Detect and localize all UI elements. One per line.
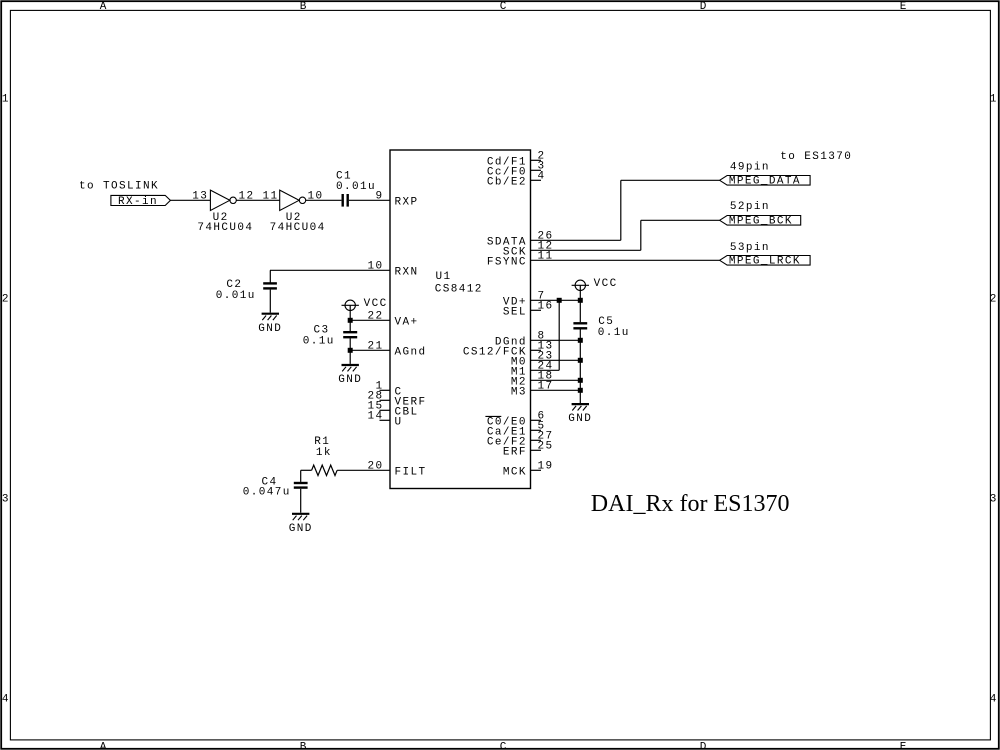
junction DGnd <box>578 338 583 343</box>
svg-text:3: 3 <box>990 493 998 505</box>
svg-text:GND: GND <box>258 323 282 335</box>
capacitor C5 <box>573 322 587 324</box>
junction M2 <box>578 378 583 383</box>
svg-text:74HCU04: 74HCU04 <box>270 222 326 234</box>
svg-text:D: D <box>700 741 708 750</box>
svg-text:VCC: VCC <box>364 298 388 310</box>
junction M3 <box>578 388 583 393</box>
wire FILT pin 20 <box>337 469 390 471</box>
svg-text:U: U <box>395 417 403 429</box>
junction M1 riser <box>557 298 562 303</box>
svg-text:RXP: RXP <box>395 197 419 209</box>
svg-text:A: A <box>100 1 108 13</box>
svg-text:U1: U1 <box>436 271 452 283</box>
svg-text:C: C <box>500 741 508 750</box>
svg-text:to ES1370: to ES1370 <box>780 151 852 163</box>
ground GND under C2 <box>262 313 279 315</box>
wire M1 pin 24 <box>531 369 560 371</box>
svg-text:ERF: ERF <box>503 447 527 459</box>
op-amp U1 CS8412 IC box <box>390 150 531 489</box>
svg-text:FSYNC: FSYNC <box>487 257 527 269</box>
wire AGnd pin 21 <box>350 349 390 351</box>
svg-text:11: 11 <box>263 191 279 203</box>
wire DGnd pin 8 <box>531 339 581 341</box>
svg-text:CS8412: CS8412 <box>435 284 483 296</box>
svg-text:RX-in: RX-in <box>118 196 158 208</box>
wire VD+ pin 7 <box>531 299 581 301</box>
svg-text:49pin: 49pin <box>730 161 770 173</box>
svg-text:E: E <box>900 741 908 750</box>
wire C4 to ground <box>300 489 302 513</box>
svg-text:2: 2 <box>2 293 10 305</box>
svg-text:0.01u: 0.01u <box>336 181 376 193</box>
svg-text:1: 1 <box>990 93 998 105</box>
svg-text:MPEG_DATA: MPEG_DATA <box>729 176 801 188</box>
wire C1 to RXP pin 9 <box>349 199 390 201</box>
wire riser to M1 <box>558 300 560 370</box>
ground GND under C3 <box>342 364 359 366</box>
wire R1 to C4 <box>301 469 312 471</box>
junction AGnd <box>348 348 353 353</box>
svg-text:GND: GND <box>568 413 592 425</box>
svg-text:RXN: RXN <box>395 267 419 279</box>
capacitor C2 <box>263 282 277 284</box>
svg-text:0.047u: 0.047u <box>243 487 291 499</box>
wire SCK pin 12 <box>531 249 641 251</box>
wire SDATA pin 26 <box>531 239 621 241</box>
U2a inverter gate <box>210 190 229 210</box>
svg-text:0.1u: 0.1u <box>303 336 335 348</box>
wire VCC down through C3 <box>349 305 351 331</box>
svg-text:3: 3 <box>2 493 10 505</box>
svg-text:MPEG_LRCK: MPEG_LRCK <box>729 256 801 268</box>
svg-text:C: C <box>500 1 508 13</box>
wire U2a output to U2b input <box>236 199 279 201</box>
svg-text:4: 4 <box>990 693 998 705</box>
junction VD+ <box>578 298 583 303</box>
svg-text:M3: M3 <box>511 387 527 399</box>
wire VCC down through C5 <box>579 285 581 322</box>
svg-text:E: E <box>900 1 908 13</box>
wire VA+ pin 22 <box>350 319 390 321</box>
capacitor C3 <box>343 331 357 333</box>
wire down to C2 <box>269 270 271 283</box>
svg-text:13: 13 <box>192 191 208 203</box>
svg-text:MPEG_BCK: MPEG_BCK <box>729 216 793 228</box>
U2b inverter gate <box>280 190 299 210</box>
svg-text:2: 2 <box>990 293 998 305</box>
svg-text:GND: GND <box>338 374 362 386</box>
svg-text:74HCU04: 74HCU04 <box>197 222 253 234</box>
svg-text:to TOSLINK: to TOSLINK <box>79 181 159 193</box>
wire U2b output to C1 <box>306 199 342 201</box>
wire RX-in to U2a input <box>170 199 210 201</box>
svg-text:53pin: 53pin <box>730 242 770 254</box>
wire M0 pin 23 <box>531 359 581 361</box>
ground GND under C5 <box>572 403 589 405</box>
svg-text:Cb/E2: Cb/E2 <box>487 177 527 189</box>
resistor R1 <box>312 465 338 475</box>
svg-text:4: 4 <box>2 693 10 705</box>
svg-text:SEL: SEL <box>503 307 527 319</box>
junction VA+ <box>348 318 353 323</box>
junction M0 <box>578 358 583 363</box>
svg-text:MCK: MCK <box>503 467 527 479</box>
svg-text:B: B <box>300 1 308 13</box>
port RX-in <box>111 195 170 205</box>
svg-text:52pin: 52pin <box>730 201 770 213</box>
svg-text:VCC: VCC <box>594 278 618 290</box>
svg-text:0.01u: 0.01u <box>216 290 256 302</box>
svg-text:1k: 1k <box>316 447 332 459</box>
wire RXN pin 10 <box>270 269 390 271</box>
svg-text:GND: GND <box>289 523 313 535</box>
wire M2 pin 18 <box>531 379 581 381</box>
ground GND under C4 <box>292 513 309 515</box>
svg-text:FILT: FILT <box>395 467 427 479</box>
svg-text:B: B <box>300 741 308 750</box>
wire C2 to ground <box>269 290 271 313</box>
power VCC symbol (VA+) <box>345 300 355 310</box>
wire M3 pin 17 <box>531 389 581 391</box>
svg-text:0.1u: 0.1u <box>598 327 630 339</box>
svg-text:VA+: VA+ <box>395 317 419 329</box>
svg-text:D: D <box>700 1 708 13</box>
svg-text:DAI_Rx for ES1370: DAI_Rx for ES1370 <box>591 491 790 517</box>
capacitor C4 <box>294 482 308 484</box>
capacitor C1 <box>342 194 344 207</box>
power VCC symbol (VD+) <box>575 280 585 290</box>
svg-text:AGnd: AGnd <box>395 347 427 359</box>
svg-text:1: 1 <box>2 93 10 105</box>
wire FSYNC pin 11 <box>531 259 720 261</box>
svg-text:A: A <box>100 741 108 750</box>
